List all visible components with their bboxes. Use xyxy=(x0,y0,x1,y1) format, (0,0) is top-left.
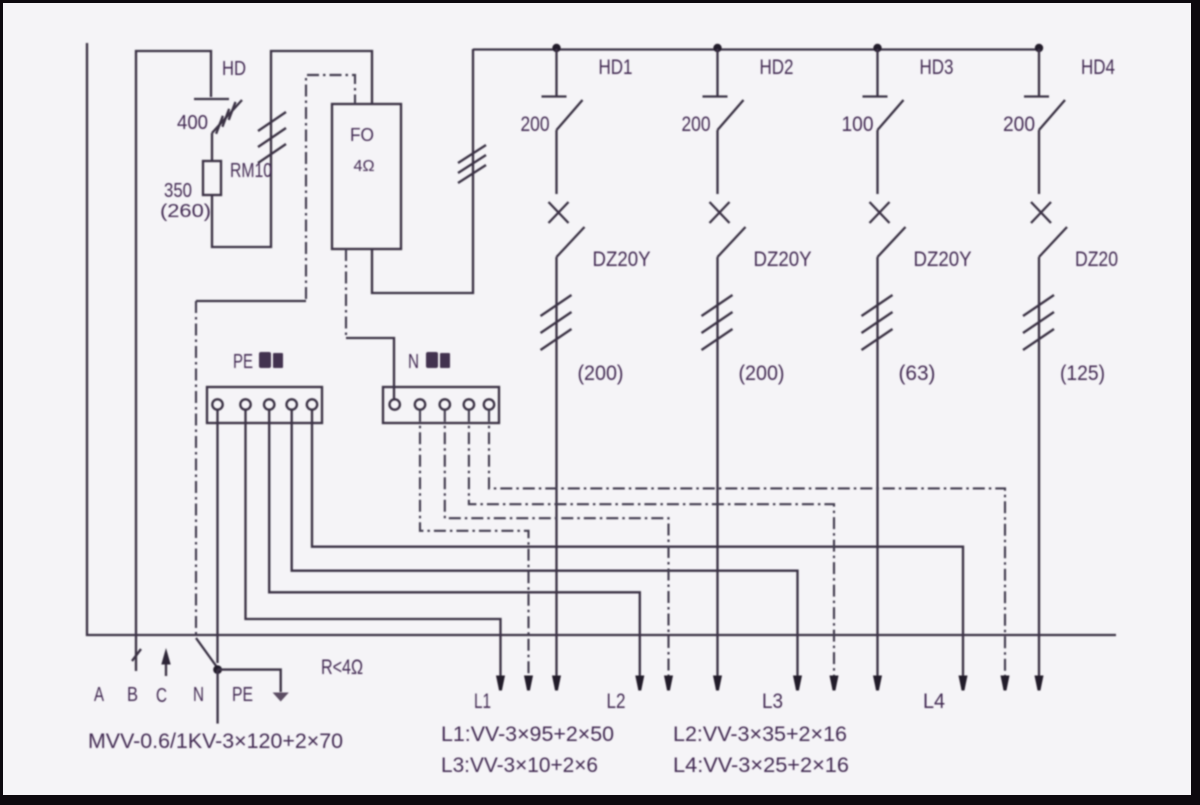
svg-text:B: B xyxy=(127,684,138,706)
svg-text:DZ20Y: DZ20Y xyxy=(914,248,972,271)
svg-text:DZ20Y: DZ20Y xyxy=(754,248,812,271)
svg-text:L3: L3 xyxy=(762,690,783,713)
svg-text:N: N xyxy=(193,684,204,706)
svg-text:HD2: HD2 xyxy=(760,56,794,79)
svg-text:N: N xyxy=(408,351,419,373)
svg-text:L4: L4 xyxy=(923,690,945,713)
svg-text:HD: HD xyxy=(222,58,246,80)
svg-text:200: 200 xyxy=(1003,113,1035,136)
svg-text:L3:VV-3×10+2×6: L3:VV-3×10+2×6 xyxy=(441,754,598,777)
svg-text:200: 200 xyxy=(682,113,711,136)
svg-text:4Ω: 4Ω xyxy=(354,158,375,175)
svg-text:DZ20: DZ20 xyxy=(1075,248,1118,271)
svg-text:L1: L1 xyxy=(474,690,491,713)
svg-text:HD4: HD4 xyxy=(1081,56,1115,79)
svg-text:MVV-0.6/1KV-3×120+2×70: MVV-0.6/1KV-3×120+2×70 xyxy=(88,730,343,753)
svg-text:200: 200 xyxy=(521,113,550,136)
svg-text:400: 400 xyxy=(177,112,208,134)
svg-text:(200): (200) xyxy=(578,362,624,385)
svg-text:PE: PE xyxy=(233,351,253,373)
svg-text:(63): (63) xyxy=(899,362,936,385)
svg-text:L2:VV-3×35+2×16: L2:VV-3×35+2×16 xyxy=(673,723,847,746)
svg-text:L4:VV-3×25+2×16: L4:VV-3×25+2×16 xyxy=(673,754,849,777)
svg-text:L2: L2 xyxy=(607,690,626,713)
svg-text:HD1: HD1 xyxy=(599,56,633,79)
svg-text:R<4Ω: R<4Ω xyxy=(321,656,363,679)
svg-text:HD3: HD3 xyxy=(920,56,954,79)
svg-text:RM10: RM10 xyxy=(230,160,272,182)
svg-text:(125): (125) xyxy=(1060,362,1105,385)
svg-text:350: 350 xyxy=(164,180,192,202)
svg-text:DZ20Y: DZ20Y xyxy=(593,248,651,271)
svg-text:(260): (260) xyxy=(160,201,211,221)
svg-text:C: C xyxy=(156,685,167,707)
svg-text:A: A xyxy=(94,684,104,706)
svg-text:PE: PE xyxy=(232,684,253,706)
svg-text:(200): (200) xyxy=(739,362,785,385)
svg-text:L1:VV-3×95+2×50: L1:VV-3×95+2×50 xyxy=(441,723,614,746)
svg-text:FO: FO xyxy=(350,125,374,145)
svg-text:100: 100 xyxy=(842,113,874,136)
